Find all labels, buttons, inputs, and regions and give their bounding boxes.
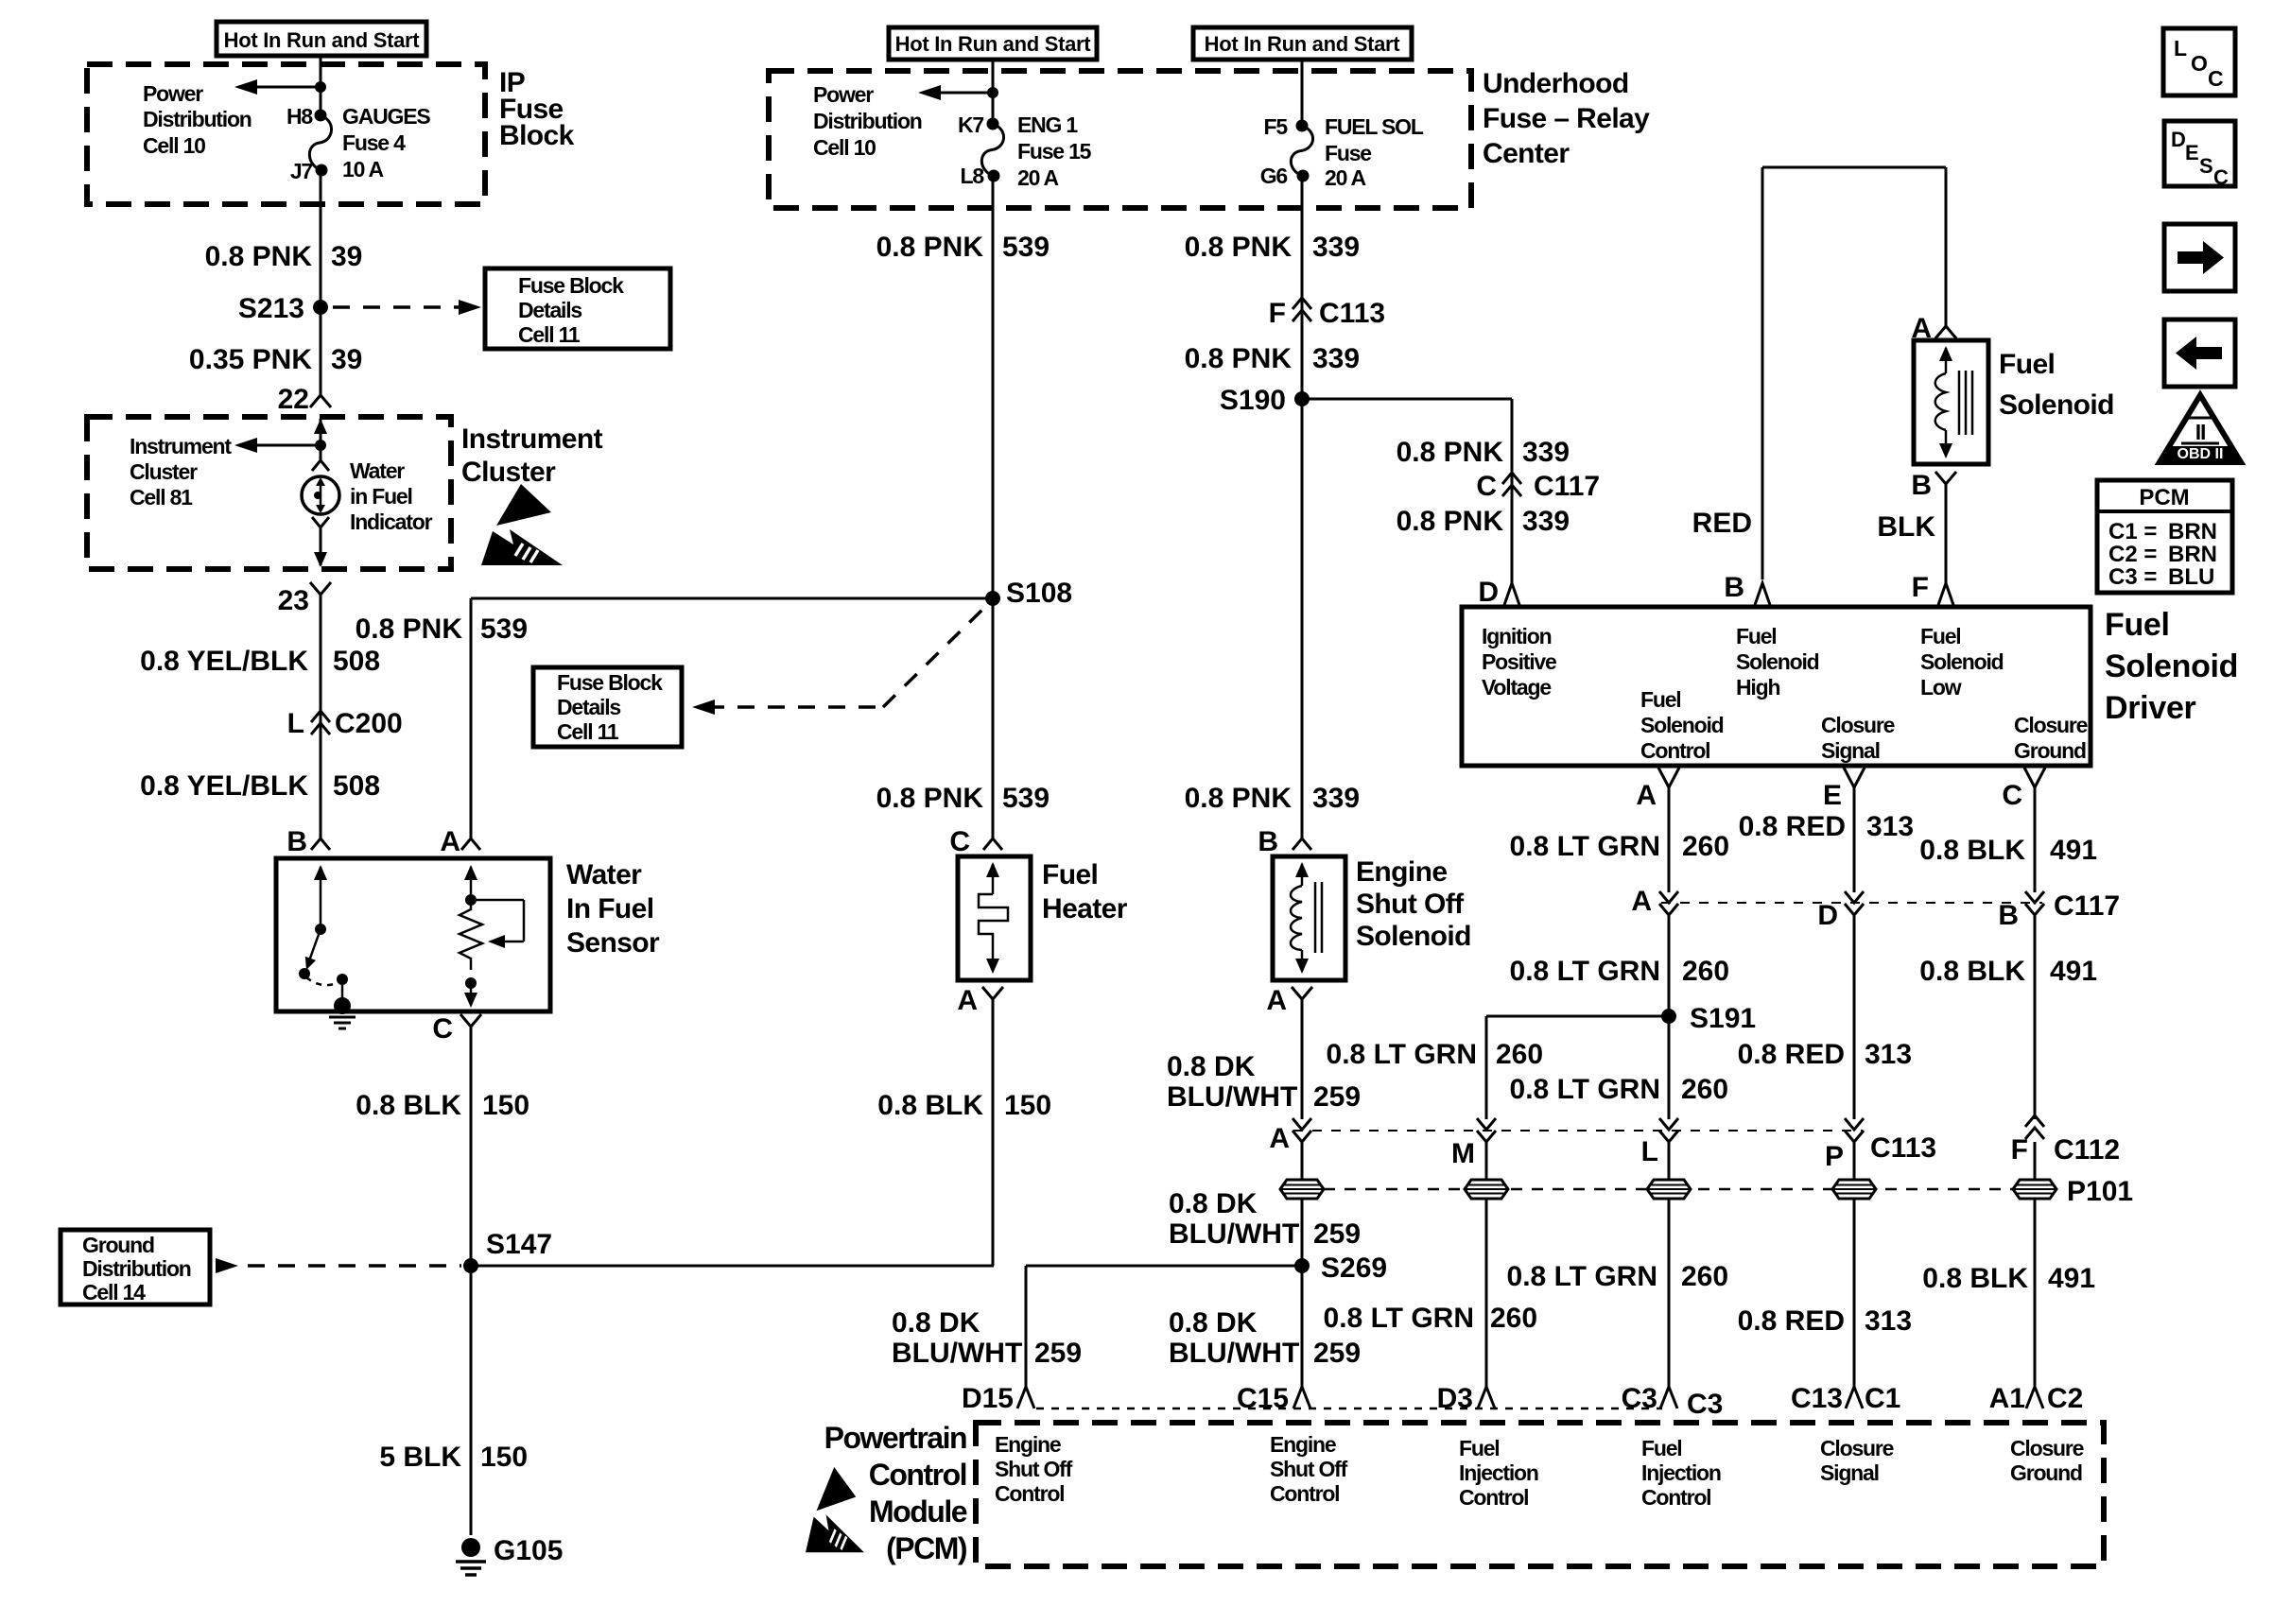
heater exit arrow [992, 942, 995, 960]
PCM connector legend box [2097, 480, 2232, 593]
svg-text:Shut Off: Shut Off [1356, 889, 1465, 920]
svg-text:Module: Module [869, 1494, 967, 1529]
svg-text:260: 260 [1490, 1303, 1537, 1334]
svg-text:Fuse: Fuse [1325, 141, 1371, 165]
fuel solenoid core lines [1958, 371, 1961, 435]
svg-text:259: 259 [1313, 1338, 1361, 1369]
svg-text:C3 =: C3 = [2108, 564, 2157, 590]
svg-text:491: 491 [2050, 835, 2097, 866]
svg-text:D: D [1478, 577, 1499, 608]
svg-text:B: B [1911, 470, 1932, 501]
ESD sensitivity symbol (cluster) [481, 484, 563, 565]
arrow to Power Distribution [248, 86, 321, 89]
svg-text:Closure: Closure [2010, 1436, 2084, 1460]
svg-text:Fuel: Fuel [1736, 624, 1776, 648]
connector C113 dashed line [1293, 1130, 1863, 1132]
wire indicator to cluster edge with down arrow [320, 527, 322, 565]
grommet P101 at L wire [1647, 1180, 1691, 1199]
wire fuel solenoid B to driver pin F [1945, 484, 1948, 583]
svg-text:0.8 RED: 0.8 RED [1738, 1039, 1845, 1070]
svg-text:Driver: Driver [2105, 690, 2196, 726]
svg-text:C: C [2002, 780, 2022, 811]
shutoff solenoid core lines [1314, 882, 1317, 953]
fuse GAUGES Fuse 4 10 A [309, 115, 331, 170]
svg-text:Low: Low [1920, 675, 1962, 700]
svg-text:Fuse Block: Fuse Block [518, 273, 624, 298]
svg-text:Control: Control [869, 1458, 966, 1492]
svg-text:BLU/WHT: BLU/WHT [1169, 1218, 1299, 1250]
grommet line P101 dashed [1324, 1188, 2033, 1191]
svg-text:In Fuel: In Fuel [566, 893, 653, 924]
svg-text:0.8 LT GRN: 0.8 LT GRN [1507, 1261, 1657, 1292]
svg-text:BLU/WHT: BLU/WHT [892, 1338, 1022, 1369]
svg-text:Instrument: Instrument [461, 423, 603, 455]
svg-text:BLU/WHT: BLU/WHT [1169, 1338, 1299, 1369]
svg-text:A: A [1636, 780, 1657, 811]
Engine Shut Off Solenoid box [1273, 856, 1345, 980]
svg-text:Voltage: Voltage [1482, 675, 1551, 700]
svg-text:Control: Control [1641, 1485, 1710, 1510]
Powertrain Control Module dashed outline [976, 1423, 2104, 1566]
wire from Hot label into underhood center [992, 60, 995, 124]
icon forward arrow [2164, 224, 2235, 291]
svg-text:A: A [1631, 886, 1652, 917]
junction dot cluster feed [315, 440, 326, 451]
svg-text:F: F [1912, 572, 1929, 603]
wire sensor C to S147 [470, 1027, 473, 1266]
wire from Hot label to fuse F5 [1301, 60, 1304, 126]
svg-text:Ground: Ground [82, 1233, 154, 1257]
svg-text:(PCM): (PCM) [886, 1531, 967, 1565]
svg-text:in Fuel: in Fuel [350, 484, 412, 509]
wire driver A to C117 [1668, 787, 1671, 892]
svg-text:C112: C112 [2054, 1134, 2120, 1166]
svg-text:339: 339 [1522, 506, 1570, 537]
svg-text:P101: P101 [2067, 1176, 2133, 1207]
sensor resistor top dot [465, 894, 477, 906]
svg-text:0.8 PNK: 0.8 PNK [1185, 343, 1293, 374]
svg-text:Cluster: Cluster [130, 459, 198, 484]
svg-text:0.8 BLK: 0.8 BLK [1919, 956, 2025, 987]
svg-text:Fuel: Fuel [1641, 1436, 1681, 1460]
svg-text:5 BLK: 5 BLK [379, 1442, 461, 1473]
Instrument Cluster dashed outline [87, 417, 451, 569]
svg-text:Injection: Injection [1459, 1460, 1538, 1485]
svg-text:S213: S213 [238, 293, 304, 324]
svg-text:Control: Control [1270, 1481, 1339, 1506]
svg-text:H8: H8 [286, 104, 313, 129]
icon DESC [2164, 121, 2235, 186]
Fuel Solenoid Driver box [1462, 607, 2091, 766]
svg-text:OBD II: OBD II [2178, 446, 2224, 462]
svg-text:Center: Center [1483, 138, 1570, 169]
sensor sense exit arrow [470, 983, 473, 994]
svg-text:0.8 DK: 0.8 DK [1169, 1307, 1258, 1339]
svg-text:BLK: BLK [1877, 511, 1935, 543]
svg-text:L: L [1641, 1136, 1658, 1167]
svg-text:0.8 RED: 0.8 RED [1739, 811, 1846, 842]
node S190 [1294, 391, 1310, 406]
indicator terminal chevron [312, 460, 329, 471]
node S269 [1294, 1258, 1310, 1273]
svg-text:RED: RED [1692, 508, 1752, 539]
svg-text:Powertrain: Powertrain [824, 1421, 966, 1455]
svg-text:Fuel: Fuel [1042, 859, 1098, 890]
grommet P101 at F wire [2013, 1180, 2056, 1199]
grommet P101 at P wire [1832, 1180, 1876, 1199]
wires C113 pins down to P101 [1301, 1142, 1304, 1266]
svg-text:23: 23 [278, 585, 309, 616]
svg-text:S108: S108 [1006, 578, 1072, 609]
svg-text:313: 313 [1865, 1305, 1912, 1337]
svg-text:Ground: Ground [2014, 738, 2086, 763]
svg-text:Power: Power [813, 82, 874, 107]
wire S190 branch to fuel solenoid driver pin D [1302, 398, 1512, 401]
svg-text:Fuse Block: Fuse Block [557, 670, 663, 695]
box Fuse Block Details Cell 11 (underhood) [533, 667, 682, 747]
svg-text:259: 259 [1313, 1081, 1361, 1113]
svg-text:Fuse 15: Fuse 15 [1017, 139, 1092, 164]
box Fuse Block Details Cell 11 [485, 268, 670, 349]
svg-text:M: M [1451, 1138, 1475, 1169]
icon LOC [2163, 28, 2235, 95]
svg-text:0.8 PNK: 0.8 PNK [1185, 232, 1293, 263]
junction dot on feed wire [315, 81, 326, 93]
sensor wiper loop [471, 899, 524, 902]
wire solenoid A to connector C113 [1301, 999, 1304, 1119]
svg-text:L: L [287, 708, 304, 739]
svg-text:C13: C13 [1791, 1383, 1843, 1414]
wire S269 branch to PCM D15 [1026, 1265, 1302, 1268]
svg-text:22: 22 [278, 384, 309, 415]
svg-text:0.8 PNK: 0.8 PNK [356, 613, 463, 645]
svg-text:Shut Off: Shut Off [1270, 1457, 1348, 1481]
svg-text:FUEL SOL: FUEL SOL [1325, 114, 1424, 139]
IP Fuse Block dashed outline [87, 64, 485, 204]
fuse FUEL SOL Fuse 20 A [1291, 126, 1312, 176]
svg-text:A: A [1266, 985, 1287, 1016]
sensor sense feed arrow [464, 865, 477, 880]
svg-text:Cell 81: Cell 81 [130, 485, 193, 510]
wire C117 D down to C113 P [1853, 915, 1856, 1119]
node S147 [463, 1258, 478, 1273]
svg-text:Fuel: Fuel [2105, 607, 2170, 643]
svg-text:Control: Control [995, 1481, 1064, 1506]
svg-text:J7: J7 [290, 159, 313, 183]
svg-text:G6: G6 [1260, 164, 1288, 188]
svg-text:Sensor: Sensor [566, 927, 660, 959]
svg-text:BRN: BRN [2168, 542, 2217, 567]
wire S190 to shutoff solenoid pin B [1301, 399, 1304, 838]
svg-text:260: 260 [1681, 1261, 1728, 1292]
svg-text:Fuse 4: Fuse 4 [342, 130, 406, 155]
wire cluster pin 23 to sensor pin B [320, 595, 322, 838]
svg-text:BLU/WHT: BLU/WHT [1167, 1081, 1297, 1113]
svg-text:B: B [1998, 900, 2019, 931]
svg-text:Ignition: Ignition [1482, 624, 1552, 648]
svg-text:313: 313 [1866, 811, 1914, 842]
connector C117 dashed line [1661, 902, 2042, 904]
svg-text:491: 491 [2050, 956, 2097, 987]
arrow to Instrument Cluster Cell 81 [246, 444, 321, 447]
svg-text:Signal: Signal [1821, 738, 1880, 763]
svg-text:Ground: Ground [2010, 1460, 2082, 1485]
svg-text:508: 508 [333, 646, 380, 677]
svg-text:D15: D15 [962, 1383, 1014, 1414]
dashed pointer Ground Distribution to S147 [216, 1258, 238, 1273]
svg-text:C1 =: C1 = [2108, 519, 2157, 544]
svg-text:Distribution: Distribution [143, 107, 252, 131]
node S191 [1661, 1009, 1676, 1024]
Water In Fuel Sensor box [276, 858, 550, 1011]
svg-text:259: 259 [1313, 1218, 1361, 1250]
svg-text:Control: Control [1640, 738, 1709, 763]
svg-text:GAUGES: GAUGES [342, 104, 430, 129]
svg-text:0.8 BLK: 0.8 BLK [1919, 835, 2025, 866]
svg-text:Water: Water [566, 859, 642, 890]
svg-text:Closure: Closure [1821, 713, 1895, 737]
svg-text:0.8 BLK: 0.8 BLK [877, 1090, 983, 1121]
svg-text:339: 339 [1312, 783, 1360, 814]
svg-text:G105: G105 [494, 1535, 563, 1566]
svg-text:0.8 DK: 0.8 DK [892, 1307, 980, 1339]
svg-text:Instrument: Instrument [130, 434, 232, 458]
svg-text:339: 339 [1312, 232, 1360, 263]
svg-text:0.8 PNK: 0.8 PNK [876, 783, 984, 814]
svg-text:Solenoid: Solenoid [1920, 649, 2004, 674]
svg-text:539: 539 [1002, 783, 1050, 814]
svg-text:10 A: 10 A [342, 157, 384, 181]
svg-text:C15: C15 [1237, 1383, 1289, 1414]
wire S147 to fuel heater return [471, 1265, 994, 1268]
svg-text:0.8 LT GRN: 0.8 LT GRN [1324, 1303, 1474, 1334]
svg-text:0.8 PNK: 0.8 PNK [1185, 783, 1293, 814]
label box: Hot In Run and Start (FUEL SOL feed) [1193, 27, 1412, 60]
svg-text:C: C [432, 1013, 453, 1045]
sensor switch feed arrow [314, 865, 327, 880]
svg-text:Signal: Signal [1820, 1460, 1879, 1485]
wire driver E to C117 [1853, 787, 1856, 892]
Fuel Heater box [958, 856, 1031, 980]
svg-text:Solenoid: Solenoid [1999, 389, 2114, 421]
label box: Hot In Run and Start (ENG 1 feed) [889, 27, 1097, 60]
svg-text:C2 =: C2 = [2108, 542, 2157, 567]
svg-text:S269: S269 [1321, 1253, 1387, 1284]
fuel solenoid feed arrow [1939, 346, 1952, 361]
svg-text:20 A: 20 A [1017, 165, 1059, 190]
svg-text:260: 260 [1682, 956, 1729, 987]
ESD sensitivity symbol (PCM) [806, 1467, 864, 1552]
sensor variable resistor element [460, 900, 482, 970]
svg-text:D3: D3 [1437, 1383, 1473, 1414]
svg-text:C113: C113 [1870, 1132, 1936, 1164]
svg-text:0.8 BLK: 0.8 BLK [356, 1090, 461, 1121]
svg-text:C200: C200 [335, 708, 403, 739]
wire fuse G6 to S190 [1301, 176, 1304, 399]
svg-text:0.8 DK: 0.8 DK [1169, 1188, 1258, 1219]
svg-text:260: 260 [1496, 1039, 1543, 1070]
svg-text:260: 260 [1681, 1074, 1728, 1105]
svg-text:Cell 14: Cell 14 [82, 1280, 146, 1304]
svg-text:L: L [2174, 36, 2187, 60]
wire S269 to PCM C15 [1301, 1266, 1304, 1387]
svg-text:Fuel: Fuel [1920, 624, 1960, 648]
wire S213 to cluster pin 22 [320, 307, 322, 395]
svg-text:B: B [1724, 572, 1744, 603]
wire S108 to fuel heater pin C [992, 598, 995, 838]
svg-text:Fuel: Fuel [1459, 1436, 1499, 1460]
svg-text:20 A: 20 A [1325, 165, 1366, 190]
wire S147 to G105 [470, 1266, 473, 1535]
svg-text:339: 339 [1312, 343, 1360, 374]
node S213 [313, 300, 328, 315]
dashed pointer S108 to Fuse Block Details [692, 700, 715, 715]
svg-text:A1: A1 [1989, 1383, 2025, 1414]
grommet P101 at A wire [1280, 1180, 1324, 1199]
svg-text:Water: Water [350, 458, 405, 483]
svg-text:S147: S147 [486, 1229, 552, 1260]
svg-text:C: C [2208, 66, 2224, 91]
svg-text:539: 539 [1002, 232, 1050, 263]
dashed pointer S213 to Fuse Block Details [333, 305, 467, 309]
fuel solenoid coil [1935, 373, 1946, 430]
svg-text:Indicator: Indicator [350, 510, 433, 534]
svg-text:Cell 10: Cell 10 [143, 133, 205, 158]
arrow to Power Distribution (underhood) [931, 92, 993, 95]
svg-text:Engine: Engine [1270, 1432, 1336, 1457]
sensor switch blade [307, 929, 321, 966]
svg-text:C3: C3 [1687, 1389, 1723, 1420]
indicator lower terminal chevron [312, 517, 329, 527]
shutoff solenoid feed arrow [1295, 862, 1309, 877]
svg-text:508: 508 [333, 770, 380, 802]
svg-text:39: 39 [331, 241, 362, 272]
sensor switch fixed contact dot [337, 974, 348, 985]
svg-text:0.8 LT GRN: 0.8 LT GRN [1510, 956, 1660, 987]
svg-text:Distribution: Distribution [813, 109, 922, 133]
wire driver pin B up and over to fuel solenoid pin A [1761, 167, 1764, 579]
svg-text:0.8 PNK: 0.8 PNK [1397, 506, 1504, 537]
svg-text:Engine: Engine [1356, 856, 1447, 888]
svg-text:S191: S191 [1690, 1003, 1756, 1034]
sensor switch pivot dot [315, 924, 326, 935]
sensor resistor bottom dot [465, 977, 477, 989]
svg-text:P: P [1825, 1141, 1844, 1172]
sensor switch travel arc (dashed) [306, 977, 340, 985]
svg-text:Cluster: Cluster [461, 457, 556, 488]
svg-text:E: E [1823, 780, 1842, 811]
sensor internal ground [334, 997, 351, 1014]
svg-text:L8: L8 [961, 164, 985, 188]
svg-text:Cell 10: Cell 10 [813, 135, 876, 160]
svg-text:Distribution: Distribution [82, 1256, 191, 1281]
svg-text:S190: S190 [1220, 385, 1286, 416]
svg-text:O: O [2191, 51, 2208, 76]
icon back arrow [2164, 320, 2235, 387]
wire into cluster with up arrow [320, 419, 322, 445]
svg-text:C117: C117 [1534, 471, 1600, 502]
svg-text:ENG 1: ENG 1 [1017, 112, 1078, 137]
svg-text:Details: Details [518, 298, 581, 322]
label box: Hot In Run and Start (IP feed) [217, 22, 426, 56]
svg-text:Solenoid: Solenoid [1736, 649, 1819, 674]
shutoff solenoid coil [1291, 886, 1302, 950]
svg-text:0.8 PNK: 0.8 PNK [876, 232, 984, 263]
svg-text:Hot In Run and Start: Hot In Run and Start [224, 28, 421, 52]
grommet P101 at M wire [1465, 1180, 1508, 1199]
svg-text:0.8 LT GRN: 0.8 LT GRN [1510, 1074, 1660, 1105]
svg-text:150: 150 [1004, 1090, 1051, 1121]
svg-text:Cell 11: Cell 11 [557, 719, 619, 744]
svg-text:Heater: Heater [1042, 893, 1128, 924]
wire to indicator [320, 445, 322, 460]
wire C117 B down to C112 F [2034, 915, 2037, 1119]
svg-text:F5: F5 [1264, 114, 1289, 139]
svg-text:0.8 BLK: 0.8 BLK [1922, 1263, 2028, 1294]
wire heater A to S147 line [992, 999, 995, 1266]
svg-text:F: F [1269, 298, 1286, 329]
svg-text:BRN: BRN [2168, 519, 2217, 544]
svg-text:C117: C117 [2054, 890, 2120, 922]
svg-text:Fuel: Fuel [1999, 349, 2055, 380]
svg-text:Control: Control [1459, 1485, 1528, 1510]
svg-text:Block: Block [499, 120, 575, 151]
svg-text:Solenoid: Solenoid [1356, 921, 1471, 952]
svg-text:D: D [1817, 900, 1838, 931]
wire fuse J7 to S213 [320, 170, 322, 307]
svg-text:C: C [1476, 471, 1497, 502]
heater feed arrow [986, 862, 999, 877]
svg-text:259: 259 [1034, 1338, 1082, 1369]
PCM connector row dashed line [1036, 1408, 1662, 1410]
Fuel Solenoid box [1914, 340, 1988, 464]
shutoff solenoid exit arrow [1301, 950, 1304, 960]
svg-text:C113: C113 [1319, 298, 1385, 329]
Water in Fuel Indicator lamp symbol [302, 476, 339, 514]
svg-text:E: E [2185, 141, 2199, 164]
wire from Hot label into IP fuse block [320, 56, 322, 115]
fuse ENG 1 Fuse 15 20 A [981, 124, 1003, 176]
svg-text:0.8 PNK: 0.8 PNK [1397, 437, 1504, 468]
svg-text:Injection: Injection [1641, 1460, 1721, 1485]
svg-text:Closure: Closure [2014, 713, 2088, 737]
svg-text:491: 491 [2048, 1263, 2095, 1294]
wire driver C to C117 [2034, 787, 2037, 892]
svg-text:Hot In Run and Start: Hot In Run and Start [895, 32, 1092, 56]
svg-text:260: 260 [1682, 831, 1729, 862]
svg-text:Details: Details [557, 695, 620, 719]
svg-text:Fuse – Relay: Fuse – Relay [1483, 103, 1650, 134]
sensor internal ground lead [341, 979, 344, 1004]
svg-text:Closure: Closure [1820, 1436, 1894, 1460]
junction dot on ENG1 feed [987, 87, 998, 98]
svg-text:S: S [2199, 154, 2213, 178]
svg-text:150: 150 [480, 1442, 528, 1473]
svg-text:High: High [1736, 675, 1779, 700]
svg-text:Fuel: Fuel [1640, 687, 1680, 712]
svg-text:C: C [949, 826, 970, 857]
svg-text:Solenoid: Solenoid [2105, 648, 2238, 684]
svg-text:0.8 LT GRN: 0.8 LT GRN [1327, 1039, 1477, 1070]
svg-text:0.8 YEL/BLK: 0.8 YEL/BLK [140, 770, 308, 802]
svg-text:B: B [1258, 826, 1278, 857]
svg-text:Positive: Positive [1482, 649, 1556, 674]
wire S191 to C113 L [1668, 1016, 1671, 1119]
svg-text:BLU: BLU [2168, 564, 2214, 590]
node S108 [985, 591, 1000, 606]
svg-text:0.8 YEL/BLK: 0.8 YEL/BLK [140, 646, 308, 677]
svg-text:Engine: Engine [995, 1432, 1061, 1457]
